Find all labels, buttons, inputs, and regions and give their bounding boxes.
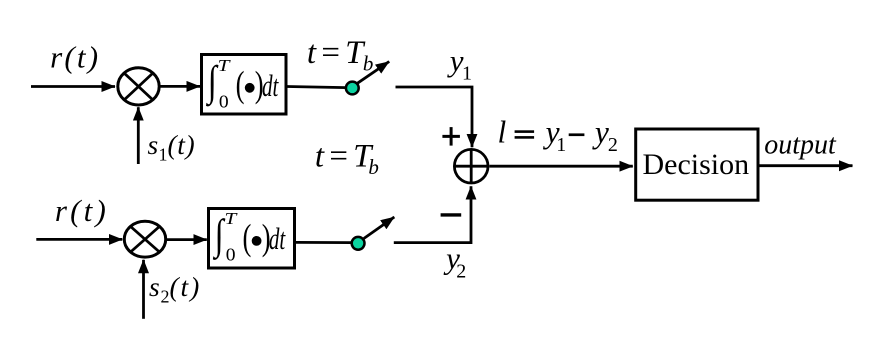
svg-text:r(t): r(t): [50, 40, 100, 75]
svg-text:Decision: Decision: [643, 148, 750, 181]
svg-text:(t): (t): [168, 129, 196, 160]
svg-text:t: t: [307, 35, 317, 71]
svg-text:2: 2: [161, 286, 170, 306]
svg-text:dt: dt: [262, 68, 279, 103]
svg-text:b: b: [368, 155, 379, 179]
svg-text:(: (: [243, 216, 252, 257]
svg-text:=: =: [327, 139, 349, 175]
svg-text:(: (: [236, 63, 245, 104]
svg-text:1: 1: [462, 62, 472, 84]
svg-text:b: b: [363, 52, 374, 76]
svg-text:=: =: [319, 35, 341, 71]
svg-text:output: output: [764, 129, 837, 160]
svg-text:dt: dt: [269, 221, 286, 256]
svg-text:s: s: [149, 271, 160, 302]
svg-text:(t): (t): [170, 271, 202, 302]
svg-text:T: T: [225, 210, 238, 229]
svg-text:2: 2: [456, 260, 466, 282]
svg-text:t: t: [315, 139, 325, 175]
svg-text:0: 0: [226, 246, 236, 266]
svg-text:1: 1: [556, 134, 566, 156]
svg-text:2: 2: [608, 134, 618, 156]
svg-text:s: s: [148, 129, 159, 160]
svg-text:T: T: [218, 57, 231, 76]
svg-text:y: y: [592, 115, 609, 150]
svg-text:0: 0: [219, 93, 229, 113]
svg-text:1: 1: [159, 145, 168, 165]
svg-text:l: l: [498, 115, 507, 150]
svg-text:r(t): r(t): [55, 193, 109, 228]
